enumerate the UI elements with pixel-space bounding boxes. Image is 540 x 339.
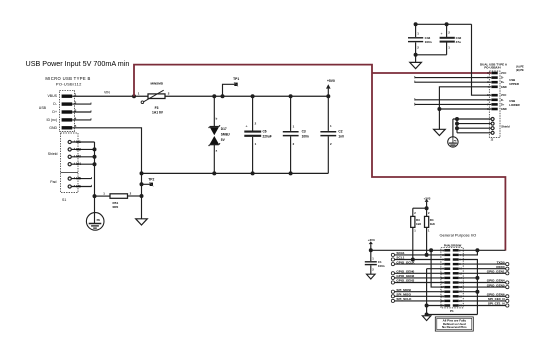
capacitor C32 47u [446, 24, 448, 37]
wire +5V rail top right [416, 23, 472, 25]
ground PE (protective earth) left [86, 213, 104, 231]
svg-text:+: + [440, 32, 442, 36]
wire C32 ground return [416, 54, 447, 56]
svg-text:0R0: 0R0 [113, 205, 119, 209]
wire upper usb D- stub [415, 77, 491, 79]
micro usb pin 2 pad [62, 102, 73, 105]
svg-text:D+: D+ [501, 102, 505, 106]
node 3V3 rail left end [369, 248, 373, 252]
dual usb upper pin 2 D- [491, 76, 497, 79]
dual usb upper pin 4 GND [491, 86, 497, 89]
diode D17 SMBJ 5V TVS [213, 96, 215, 126]
svg-text:Shield: Shield [501, 125, 510, 129]
node R51 to ground junction [140, 194, 144, 198]
micro usb shield pin M2 [68, 148, 71, 151]
svg-text:MINSMD: MINSMD [151, 82, 164, 86]
svg-text:SPI_CE0_N: SPI_CE0_N [488, 297, 505, 301]
wire/port SDA1 gpio pin 3 [391, 253, 394, 256]
svg-text:GPIO_GCLK: GPIO_GCLK [396, 260, 415, 264]
ground DGND gpio [426, 315, 428, 316]
gpio header row pins 23/24 [444, 300, 450, 302]
svg-text:M5: M5 [76, 177, 81, 181]
wire/port GPIO_GEN3 gpio pin 15 [391, 281, 394, 284]
svg-text:GPIO_GEN3: GPIO_GEN3 [396, 279, 414, 283]
svg-text:USB Power Input 5V 700mA min: USB Power Input 5V 700mA min [26, 59, 130, 68]
capacitor C6 220uF [252, 96, 254, 130]
svg-text:TP1: TP1 [233, 77, 239, 81]
svg-text:C2: C2 [338, 129, 342, 133]
gpio header row pins 19/20 [444, 291, 450, 293]
test point TP2 [141, 173, 143, 196]
svg-text:D17: D17 [221, 127, 227, 131]
node dual usb gnd junction [437, 107, 441, 111]
svg-text:100n: 100n [425, 40, 432, 44]
svg-text:GND: GND [501, 107, 507, 111]
wire VIN from micro usb pin1 to fuse [72, 95, 148, 97]
svg-text:VCC: VCC [501, 71, 507, 75]
svg-text:47u: 47u [456, 40, 461, 44]
wire shield bus vertical [94, 142, 96, 196]
dual usb lower pin 8 GND [491, 108, 497, 111]
svg-text:SPI_SCLK: SPI_SCLK [396, 297, 412, 301]
svg-text:S1: S1 [62, 198, 66, 202]
svg-text:PO-USB/UH: PO-USB/UH [484, 66, 500, 70]
gpio header P1 body box [441, 248, 463, 308]
gpio header row pins 25/26 [444, 304, 450, 306]
micro usb pin 4 pad [62, 118, 73, 121]
micro usb shield pin M3 [68, 155, 71, 158]
svg-text:LOWER: LOWER [509, 103, 519, 107]
svg-text:M4: M4 [76, 162, 81, 166]
capacitor C3 100n [290, 96, 292, 131]
micro usb mechanical pins box S1 [61, 133, 79, 193]
wire lower usb GND [439, 108, 491, 110]
svg-text:SCL1: SCL1 [396, 256, 404, 260]
svg-text:GPIO_GEN5: GPIO_GEN5 [487, 283, 505, 287]
wire upper usb D+ stub [415, 81, 491, 83]
node VIN junction to red +5V net [132, 94, 136, 98]
svg-text:M6: M6 [76, 184, 81, 188]
svg-text:SPI_MISO: SPI_MISO [396, 293, 411, 297]
capacitor C2 1n0 [327, 96, 329, 131]
svg-text:P1: P1 [450, 309, 454, 313]
gpio header row pins 1/2 [444, 249, 450, 251]
svg-text:1n0: 1n0 [338, 134, 344, 138]
resistor R3 1k8 [412, 208, 414, 216]
wire gpio 5V pin2 to red net [459, 249, 506, 251]
svg-text:UPPER: UPPER [509, 82, 519, 86]
dual usb shield pin M2 [491, 122, 494, 125]
svg-text:M1: M1 [76, 140, 81, 144]
wire/port SPI_SCLK gpio pin 23 [391, 299, 394, 302]
micro usb pin 3 pad [62, 110, 73, 113]
dual usb lower pin 7 D+ [491, 103, 497, 106]
svg-text:GND: GND [49, 126, 57, 130]
wire/port GPIO_GEN2 gpio pin 13 [391, 276, 394, 279]
fuse F3 MINSMD body [148, 94, 165, 99]
svg-text:VBUS: VBUS [47, 94, 57, 98]
svg-text:C32: C32 [456, 36, 462, 40]
wire gpio right GND bus pins 6,14,20 [459, 260, 478, 315]
svg-text:C3: C3 [302, 129, 306, 133]
svg-text:ID (nc): ID (nc) [47, 118, 58, 122]
svg-text:SPI_MOSI: SPI_MOSI [396, 288, 411, 292]
svg-text:RXD0: RXD0 [496, 265, 505, 269]
dual usb upper pin 3 D+ [491, 81, 497, 84]
ground DGND below C1 [367, 274, 376, 279]
gpio header row pins 15/16 [444, 281, 450, 283]
wire 3V3 feed to gpio pin17 [431, 250, 444, 287]
svg-text:SPI_CE1_N: SPI_CE1_N [488, 302, 505, 306]
wire gpio gnd bottom bus [427, 314, 478, 316]
gpio header row pins 13/14 [444, 277, 450, 279]
svg-text:D-: D- [501, 76, 504, 80]
svg-text:SDA1: SDA1 [396, 251, 405, 255]
svg-text:USB: USB [39, 106, 47, 110]
dual usb shield pin M4 [491, 131, 494, 134]
wire lower usb D- stub [415, 99, 491, 101]
svg-text:D+: D+ [52, 110, 57, 114]
dual usb connector body box [489, 71, 500, 138]
svg-text:TXD0: TXD0 [497, 260, 505, 264]
gpio header row pins 11/12 [444, 272, 450, 274]
svg-text:No Reserved Pins: No Reserved Pins [442, 325, 467, 329]
wire/port GPIO_GEN1 gpio pin 12 [459, 272, 506, 274]
svg-text:SMBJ: SMBJ [221, 132, 230, 136]
capacitor C33 100n [415, 24, 417, 37]
svg-text:(B) PE: (B) PE [516, 68, 524, 72]
ground DGND dual usb [434, 129, 446, 135]
svg-text:+5V0: +5V0 [327, 79, 335, 83]
wire ground rail [142, 172, 329, 174]
svg-text:M3: M3 [76, 155, 81, 159]
dual usb shield pin M1 [491, 118, 494, 121]
resistor R4 1k8 [426, 208, 428, 216]
svg-text:PO-USB/112: PO-USB/112 [56, 82, 82, 87]
capacitor C1 100n gpio [370, 250, 372, 261]
svg-text:VIN: VIN [104, 91, 110, 95]
dual usb shield pin M3 [491, 127, 494, 130]
micro usb pin 4 stub wire [72, 119, 91, 121]
junction shield bus to R51 [93, 194, 97, 198]
wire 5V tie pin2 to pin4 [459, 250, 478, 255]
wire pullup rail [413, 207, 427, 209]
svg-text:(A) PE: (A) PE [516, 65, 524, 69]
micro usb pin 5 pad [62, 126, 73, 129]
wire shield bus dual usb [456, 119, 458, 133]
wire gpio left GND bus pins 9,25 [427, 268, 445, 270]
wire/port RXD0 gpio pin 10 [459, 268, 506, 270]
dual usb lower pin 6 D- [491, 99, 497, 102]
wire/port SPI_MOSI gpio pin 19 [391, 290, 394, 293]
gpio header row pins 9/10 [444, 268, 450, 270]
note box: all pins fully defined [435, 317, 473, 331]
svg-text:100n: 100n [378, 264, 385, 268]
svg-text:PE: PE [97, 218, 101, 222]
micro usb pin 1 pad [62, 95, 73, 98]
micro usb pad pin M5 [68, 177, 71, 180]
micro usb connector body box [60, 90, 75, 131]
micro usb pad pin M6 [68, 185, 71, 188]
wire micro usb GND pin5 to rail [72, 128, 141, 174]
svg-text:GND: GND [501, 85, 507, 89]
wire/port SCL1 gpio pin 5 [391, 258, 394, 261]
gpio header row pins 5/6 [444, 258, 450, 260]
svg-text:MICRO USB TYPE B: MICRO USB TYPE B [45, 76, 90, 81]
micro usb pin 2 stub wire [72, 103, 91, 105]
svg-text:+3V3: +3V3 [368, 238, 375, 242]
wire 3V3 rail to gpio pin1 [371, 249, 445, 251]
gpio header row pins 21/22 [444, 295, 450, 297]
wire/port TXD0 gpio pin 8 [459, 263, 506, 265]
dual usb upper pin 1 VCC [491, 72, 497, 75]
svg-text:GPIO_GEN0: GPIO_GEN0 [396, 270, 414, 274]
svg-text:C33: C33 [425, 36, 431, 40]
svg-text:VCC: VCC [501, 93, 507, 97]
micro usb shield pin M4 [68, 163, 71, 166]
wire/port GPIO_GEN5 gpio pin 18 [459, 286, 506, 288]
svg-text:D+: D+ [501, 80, 505, 84]
test point TP1 [221, 94, 225, 98]
svg-text:1A1 6V: 1A1 6V [152, 110, 164, 114]
wire shield bus to PE ground [94, 196, 96, 222]
wire/port GPIO_GEN4 gpio pin 16 [459, 282, 506, 284]
svg-text:GPIO_GEN4: GPIO_GEN4 [487, 279, 505, 283]
svg-text:1k8: 1k8 [416, 222, 421, 226]
dual usb lower pin 5 VCC [491, 94, 497, 97]
svg-text:100n: 100n [302, 134, 309, 138]
svg-text:GPIO_GEN6: GPIO_GEN6 [487, 293, 505, 297]
svg-text:Shield: Shield [48, 152, 58, 156]
svg-text:GPIO_GEN2: GPIO_GEN2 [396, 274, 414, 278]
wire +5V feed to lower usb VCC [472, 24, 492, 95]
ground DGND top right [415, 55, 417, 63]
gpio header row pins 7/8 [444, 263, 450, 265]
wire/port SPI_CE1_N gpio pin 26 [459, 305, 506, 307]
wire/port GPIO_GEN6 gpio pin 22 [459, 295, 506, 297]
ground DGND below R51 [141, 196, 143, 219]
wire/port GPIO_GEN0 gpio pin 11 [391, 272, 394, 275]
wire red +5V net from VIN junction up and across [134, 65, 505, 251]
svg-text:C6: C6 [263, 129, 267, 133]
micro usb pin 3 stub wire [72, 111, 91, 113]
svg-text:M2: M2 [76, 147, 81, 151]
svg-text:GPIO_GEN1: GPIO_GEN1 [487, 270, 505, 274]
ground PE dual usb [448, 137, 458, 147]
wire red branch to dual usb VCC pin 1 [372, 72, 491, 74]
svg-text:PHALDR/26W: PHALDR/26W [444, 243, 462, 247]
svg-text:General Purpose I/O: General Purpose I/O [440, 232, 477, 237]
svg-text:TP2: TP2 [148, 178, 154, 182]
resistor R51 0R0 [95, 195, 111, 197]
wire main +5V rail after fuse [165, 95, 328, 97]
gpio header row pins 17/18 [444, 286, 450, 288]
wire/port GPIO_GCLK gpio pin 7 [391, 263, 394, 266]
node 3V3 to pin17 feed [429, 248, 433, 252]
wire lower usb D+ stub [415, 103, 491, 105]
svg-text:1k8: 1k8 [430, 222, 435, 226]
svg-text:Pad: Pad [50, 180, 56, 184]
micro usb shield pin M1 [68, 140, 71, 143]
wire/port SPI_CE0_N gpio pin 24 [459, 300, 506, 302]
wire upper usb GND [439, 87, 491, 130]
svg-text:D-: D- [501, 98, 504, 102]
gpio header row pins 3/4 [444, 254, 450, 256]
svg-text:220uF: 220uF [263, 134, 272, 138]
wire/port SPI_MISO gpio pin 21 [391, 295, 394, 298]
